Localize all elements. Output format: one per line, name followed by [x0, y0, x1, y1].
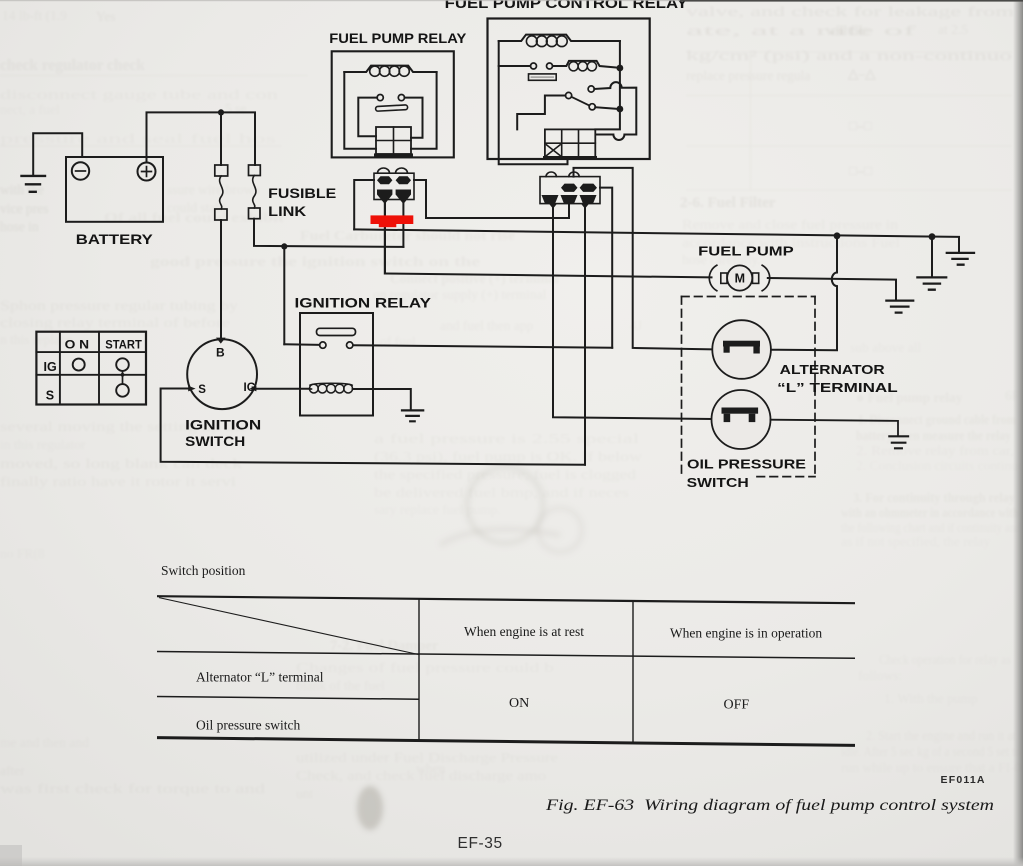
svg-text:nect, a fuel: nect, a fuel [0, 102, 60, 117]
svg-text:Sphon pressure regular tubi: Sphon pressure regular tubing by [0, 298, 238, 313]
svg-text:□–□: □–□ [849, 163, 872, 178]
svg-text:S: S [198, 384, 206, 396]
svg-text:with an ohmmeter in accord: with an ohmmeter in accordance with [841, 505, 1019, 520]
svg-text:will file: will file [826, 23, 868, 38]
svg-text:when: when [416, 761, 445, 776]
svg-text:OIL PRESSURE: OIL PRESSURE [687, 457, 806, 472]
svg-text:2. Conclusion circuits cont: 2. Conclusion circuits continuous [856, 458, 1023, 473]
svg-text:14 lb-ft (1.9: 14 lb-ft (1.9 [2, 8, 67, 23]
svg-text:Switch position: Switch position [161, 563, 246, 578]
svg-text:SWITCH: SWITCH [185, 433, 245, 449]
svg-text:as if not specified, the: as if not specified, the relay [841, 534, 990, 549]
svg-text:Alternator “L” terminal: Alternator “L” terminal [196, 670, 324, 685]
svg-text:EF011A: EF011A [941, 774, 986, 786]
svg-text:O N: O N [65, 338, 90, 352]
svg-text:3. For continuity through: 3. For continuity through relay [853, 490, 1015, 505]
svg-text:finally ratio have it roto: finally ratio have it rotor it servi [0, 474, 236, 489]
svg-text:and fuel then app: and fuel then app [440, 318, 534, 333]
svg-text:When engine is in operation: When engine is in operation [670, 626, 822, 641]
svg-text:Oil pressure switch: Oil pressure switch [196, 718, 300, 733]
svg-text:△–△: △–△ [847, 66, 877, 81]
svg-text:battery, then measure the: battery, then measure the relay [856, 428, 1011, 443]
svg-text:BATTERY: BATTERY [76, 231, 154, 247]
svg-text:me and then and: me and then and [0, 735, 89, 750]
svg-text:a fuel pressure is 2.55 s: a fuel pressure is 2.55 special [374, 431, 639, 446]
svg-text:S: S [46, 389, 54, 403]
svg-text:2. Start the engine and: 2. Start the engine and run it at [866, 728, 1016, 743]
svg-text:“L” TERMINAL: “L” TERMINAL [777, 380, 898, 395]
svg-text:vice pres: vice pres [0, 201, 48, 216]
svg-text:sub above all: sub above all [850, 340, 921, 355]
svg-text:sary replace fuel pump.: sary replace fuel pump. [374, 502, 501, 517]
svg-text:after: after [0, 763, 25, 778]
svg-text:EF-35: EF-35 [458, 835, 503, 852]
svg-text:Fig. EF-63 Wiring diagram of: Fig. EF-63 Wiring diagram of fuel pump c… [545, 797, 994, 814]
svg-text:SWITCH: SWITCH [687, 475, 749, 490]
svg-text:at 2.5: at 2.5 [938, 22, 968, 37]
svg-text:was first check for torque: was first check for torque to and [0, 781, 265, 796]
svg-text:Remove and close fuel pres: Remove and close fuel pressure in [682, 217, 898, 232]
svg-text:LINK: LINK [268, 203, 306, 219]
svg-text:ALTERNATOR: ALTERNATOR [780, 362, 886, 377]
svg-text:in this regulator: in this regulator [0, 437, 86, 452]
svg-text:good pressure the ignition: good pressure the ignition switch on the [150, 254, 480, 269]
svg-text:IG: IG [244, 382, 256, 394]
svg-text:IGNITION RELAY: IGNITION RELAY [295, 295, 432, 311]
svg-text:Changes of fuel pressure c: Changes of fuel pressure could b [296, 660, 554, 675]
svg-text:hose in: hose in [0, 219, 39, 234]
svg-text:disconnect gauge tube and: disconnect gauge tube and con [0, 87, 278, 102]
svg-text:□–□: □–□ [849, 118, 872, 133]
svg-text:1. With the pump: 1. With the pump [884, 691, 978, 706]
svg-text:IGNITION: IGNITION [185, 416, 261, 432]
svg-text:7-2. Fuel Damper: 7-2. Fuel Damper [330, 638, 439, 654]
svg-text:ate, at a rate of: ate, at a rate of [686, 23, 917, 38]
svg-text:When engine is at rest: When engine is at rest [464, 624, 584, 639]
svg-text:START: START [105, 338, 142, 352]
svg-text:no FR(8: no FR(8 [0, 546, 45, 561]
svg-text:FUEL PUMP CONTROL RELAY: FUEL PUMP CONTROL RELAY [445, 0, 688, 12]
svg-text:ON: ON [509, 696, 529, 711]
svg-text:kg/cm² (psi) and a non-con: kg/cm² (psi) and a non-continuo [686, 48, 1012, 63]
svg-text:be delivered fuel bmp, and: be delivered fuel bmp, and if neces [374, 485, 629, 500]
svg-text:OFF: OFF [724, 698, 750, 713]
svg-text:IG: IG [44, 360, 57, 374]
svg-text:run while up to ensure th: run while up to ensure that a FI-061 [841, 760, 1023, 775]
svg-text:M: M [735, 271, 745, 285]
svg-text:replace pressure regula: replace pressure regula [686, 68, 810, 83]
svg-text:follows:: follows: [858, 668, 902, 683]
svg-text:FUEL PUMP: FUEL PUMP [698, 244, 794, 259]
svg-text:ssure wire brown: ssure wire brown [167, 182, 260, 197]
svg-text:Check operation for relay: Check operation for relay as [879, 652, 1011, 667]
svg-text:moved, so long blank can: moved, so long blank can deck [0, 456, 242, 471]
svg-text:FUSIBLE: FUSIBLE [268, 185, 336, 201]
svg-text:1. Disconnect ground cable: 1. Disconnect ground cable from [858, 412, 1017, 427]
svg-text:B: B [216, 346, 225, 360]
svg-text:unt: unt [296, 786, 314, 801]
svg-text:idle. After 5 sec kg of: idle. After 5 sec kg of a second 5 set t… [841, 744, 1021, 759]
svg-text:FUEL PUMP RELAY: FUEL PUMP RELAY [329, 30, 467, 46]
svg-text:Yes: Yes [96, 9, 116, 24]
svg-text:closing relay terminal of: closing relay terminal of before [0, 315, 230, 330]
svg-text:valve, and check for leaka: valve, and check for leakage from [686, 4, 1015, 19]
svg-text:(36.3 psi), fuel pump is: (36.3 psi), fuel pump is OK. If below [374, 449, 642, 464]
svg-text:5 se: 5 se [225, 101, 246, 116]
svg-text:2-6. Fuel Filter: 2-6. Fuel Filter [680, 195, 776, 211]
svg-text:2. Remove relay from car,: 2. Remove relay from car, [856, 443, 1014, 458]
svg-text:the following chart and if: the following chart and if continuity an… [841, 520, 1021, 535]
svg-text:check regulator check: check regulator check [0, 57, 145, 74]
